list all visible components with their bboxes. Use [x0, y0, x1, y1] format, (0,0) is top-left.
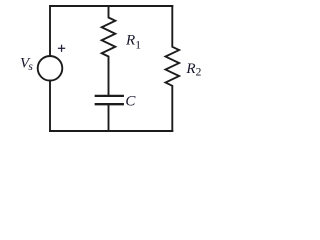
svg-text:1: 1 — [135, 39, 141, 51]
svg-text:R: R — [185, 61, 195, 77]
svg-text:R: R — [125, 32, 135, 48]
svg-text:2: 2 — [196, 67, 202, 79]
svg-text:C: C — [125, 94, 136, 110]
svg-text:s: s — [28, 61, 33, 73]
